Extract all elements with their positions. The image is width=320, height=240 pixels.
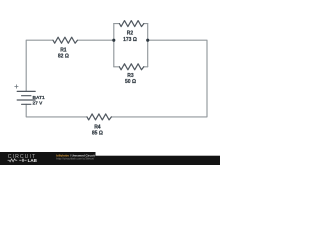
footer main bar <box>0 156 220 165</box>
svg-text:85 Ω: 85 Ω <box>92 131 103 137</box>
resistor R1 zigzag <box>53 37 77 43</box>
wire: parallel box left vertical <box>113 24 115 67</box>
svg-text:50 Ω: 50 Ω <box>125 79 136 85</box>
svg-text:R2: R2 <box>127 31 134 37</box>
svg-text:R4: R4 <box>94 125 101 131</box>
footer raised tab (logo + credits) <box>0 152 96 165</box>
resistor R3 zigzag <box>119 64 143 70</box>
battery BAT1 plates <box>17 91 35 104</box>
schematic background <box>0 0 220 165</box>
wire: R1 to parallel left node <box>77 39 113 41</box>
wire top: battery top node to R1 <box>26 40 53 91</box>
wire bottom: R4 to battery bottom <box>26 104 87 117</box>
wire: parallel box right vertical <box>147 24 149 67</box>
battery plus sign <box>15 85 18 88</box>
node right junction dot <box>146 39 149 42</box>
wire: R2 branch stubs <box>114 23 148 25</box>
svg-text:R1: R1 <box>60 48 67 54</box>
wire: parallel right node to top-right corner and down <box>111 40 207 117</box>
footer logo squiggle <box>8 159 27 162</box>
resistor R4 zigzag <box>87 114 111 120</box>
svg-text:27 V: 27 V <box>33 101 44 107</box>
svg-text:BAT1: BAT1 <box>33 95 46 101</box>
wire: R3 branch stubs <box>114 66 148 68</box>
node left junction dot <box>112 39 115 42</box>
svg-text:82 Ω: 82 Ω <box>58 54 69 60</box>
svg-text:LAB: LAB <box>28 158 38 163</box>
svg-text:http://circuitlab.com/c/3bhys/: http://circuitlab.com/c/3bhys/ <box>56 157 94 161</box>
svg-text:173 Ω: 173 Ω <box>123 37 137 43</box>
resistor R2 zigzag <box>119 21 143 27</box>
